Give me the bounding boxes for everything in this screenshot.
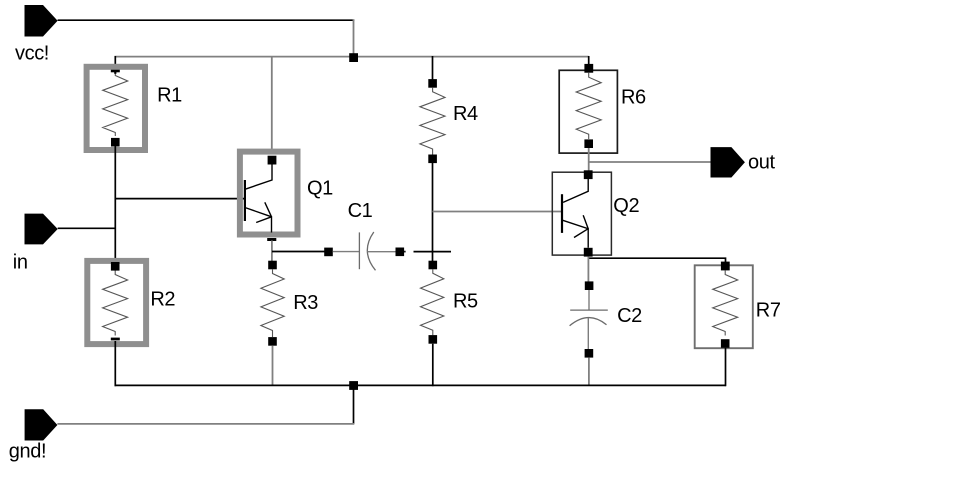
port out — [711, 147, 776, 177]
wire R3 bottom to gnd rail — [272, 346, 274, 386]
port gnd! — [9, 409, 58, 463]
wire in — [58, 227, 116, 229]
resistor R7 — [695, 262, 781, 349]
svg-text:R1: R1 — [157, 85, 182, 107]
resistor R4 — [420, 79, 478, 163]
transistor Q2 — [552, 170, 639, 256]
wire gnd rail — [115, 384, 726, 386]
wire stub rail to R6 — [588, 56, 590, 65]
svg-text:C2: C2 — [617, 305, 642, 327]
svg-text:R4: R4 — [453, 103, 478, 125]
wire vcc vertical drop — [353, 19, 355, 56]
wire R5 bottom to gnd rail — [432, 344, 434, 387]
svg-text:R3: R3 — [293, 292, 318, 314]
svg-text:vcc!: vcc! — [15, 43, 49, 65]
wire gnd horizontal — [57, 423, 354, 425]
svg-text:C1: C1 — [348, 200, 373, 222]
svg-text:Q2: Q2 — [613, 195, 639, 217]
resistor R5 — [421, 261, 479, 344]
svg-text:gnd!: gnd! — [9, 441, 46, 463]
wire R2 bottom to gnd rail — [114, 341, 116, 386]
port vcc! — [15, 5, 58, 65]
wire vcc horizontal — [58, 19, 355, 21]
node junction gnd rail — [349, 381, 358, 390]
wire rail to Q1 collector — [271, 57, 273, 153]
wire stub rail to R1 — [114, 56, 116, 67]
port in — [13, 214, 58, 274]
wire Q2 emitter to R7 — [588, 258, 725, 266]
svg-text:out: out — [748, 152, 775, 174]
wire Q2 emitter to C2 — [587, 257, 589, 282]
capacitor C2 — [570, 281, 643, 357]
wire C2 bottom to gnd rail — [588, 358, 590, 386]
resistor R1 — [87, 67, 183, 150]
resistor R3 — [261, 261, 318, 346]
transistor Q1 — [240, 152, 333, 241]
wire node to Q1 base — [115, 198, 244, 200]
capacitor C1 — [324, 200, 405, 270]
wire top rail vcc net — [115, 56, 589, 58]
wire out net — [589, 161, 711, 163]
wire R4 bottom to R5 top — [432, 163, 434, 262]
wire R7 bottom to gnd rail — [725, 348, 727, 386]
wire node to Q2 base — [433, 211, 563, 213]
resistor R6 — [559, 64, 646, 153]
wire C1 to R4-R5 node crossing — [414, 251, 452, 253]
svg-text:in: in — [13, 252, 28, 274]
svg-text:Q1: Q1 — [307, 177, 333, 199]
wire gnd drop — [353, 385, 355, 424]
svg-text:R5: R5 — [453, 291, 478, 313]
svg-text:R7: R7 — [756, 300, 781, 322]
svg-text:R2: R2 — [150, 289, 175, 311]
wire stub rail to R4 — [432, 56, 434, 80]
wire R6 bottom to Q2 collector — [588, 148, 590, 175]
svg-text:R6: R6 — [621, 87, 646, 109]
wire Q1 emitter node to C1 — [272, 251, 329, 253]
wire Q1 emitter to R3 — [271, 241, 273, 265]
wire R1 bottom to R2 top — [114, 146, 116, 267]
node junction top rail — [349, 53, 358, 62]
resistor R2 — [87, 261, 175, 344]
